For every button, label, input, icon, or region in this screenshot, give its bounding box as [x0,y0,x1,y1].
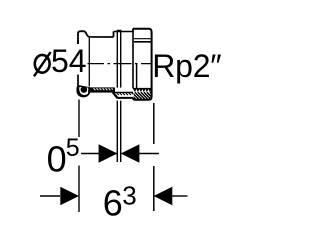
wire: press mouth rim line x78 (lower part, into section) [77,40,79,86]
node L: label 0 white mask [44,137,80,165]
node H: 6.3 dimension left arrowhead [60,187,79,205]
wire: 0.5 dimension right tail [139,153,159,155]
wire: outer step diagonal [113,92,117,97]
node A: press-end bead outline, top exterior [78,31,114,46]
wire: 0.5 dimension left tail [81,153,117,155]
wire: horizontal centerline (dash-dot) [80,63,153,65]
wire: extension line left x79 (upper part) [78,100,80,147]
svg-text:5: 5 [66,134,80,162]
wire: nut bottom silhouette with rounded corner [133,64,152,100]
wire: ring contour line x117.3 [116,31,118,87]
node J: label ø54 white mask [29,44,88,75]
wire: body-to-nut step (top) [132,29,134,32]
wire: extension line left x79 (lower part) [78,166,80,213]
wire: nut thread inner edge x136.5 (section half) [136,64,138,89]
node F: 0.5 dimension left arrowhead [99,144,118,162]
wire: ring contour line x120.7 [120,31,122,87]
node K: label Rp2 white mask [154,46,222,83]
wire: nut chamfer line upper [134,38,151,40]
wire: 6.3 dimension right tail [172,195,188,197]
node D: body wall band (section, lower half) [115,91,134,93]
wire: nut chamfer line lower [134,41,151,43]
wire: mid body top line [114,31,134,33]
svg-text:6: 6 [103,182,123,223]
wire: extension line x120.7 below fitting [120,101,122,162]
wire: extension line right x153.5 (lower part) [153,166,155,211]
wire: nut left edge x133 [132,29,134,89]
wire: socket step face (top) [113,32,115,38]
node G: 0.5 dimension right arrowhead [121,144,140,162]
svg-text:3: 3 [122,180,136,210]
svg-text:Rp2″: Rp2″ [152,48,221,84]
wire: extension line right x153.5 (upper part) [153,103,155,144]
svg-text:54: 54 [51,43,87,79]
wire: bead tangent contour line x89 [88,38,90,87]
wire: extension line x117.3 below fitting [116,101,118,162]
wire: inner shoulder face at step [113,88,115,93]
wire: small raised ring between contour lines [117,30,120,31]
node B: sectioned socket wall band (lower half) [90,87,114,92]
node I: 6.3 dimension right arrowhead [154,187,173,205]
wire: 6.3 dimension left tail [40,195,60,197]
wire: nut top line with rounded right corner and right edge [133,29,152,64]
node C: press bead section with o-ring (lower half) [76,85,90,97]
node E2: thread sawtooth [133,89,151,92]
svg-text:0: 0 [47,139,67,180]
node J2: label ø diameter symbol (drawn) [35,55,50,73]
node C2: o-ring cross-section disc [81,86,88,93]
